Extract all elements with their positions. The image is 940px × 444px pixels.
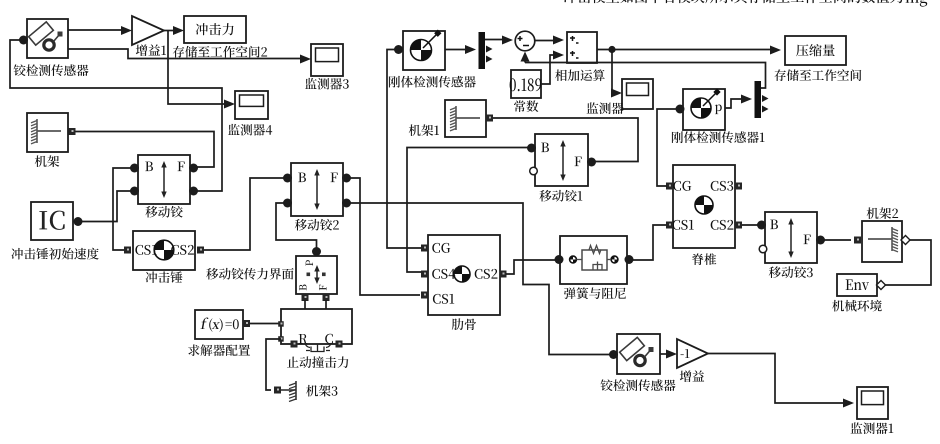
- port dots 移动铰2: [283, 174, 351, 208]
- ground block 机架2: [862, 221, 902, 262]
- port dots 移动铰1: [527, 144, 596, 167]
- port square 机架2 input: [854, 237, 861, 244]
- clipped caption text at top edge: [564, 0, 928, 7]
- open port C 移动铰1: [530, 167, 538, 175]
- arrowhead into 增益: [666, 350, 677, 359]
- wire 冲击锤 CS2 to 移动铰2 B: [204, 178, 288, 250]
- wire 刚体检测传感器 to demux: [445, 49, 466, 51]
- wire 0.189 to 相加运算 in2: [541, 55, 554, 84]
- label 监测器3: [305, 78, 349, 90]
- ground block 机架1: [445, 100, 486, 137]
- port dot 界面 top: [312, 247, 321, 256]
- block 冲击锤初始速度 IC: [31, 202, 73, 240]
- network frame 止动撞击力: [281, 309, 352, 352]
- arrowhead into sum: [502, 36, 513, 45]
- demux bar: [479, 32, 486, 69]
- wire 脊椎 CG to 刚体检测传感器1: [657, 109, 676, 186]
- label 常数: [514, 100, 538, 112]
- subsystem block 相加运算: [567, 32, 597, 63]
- arrowhead into 相加运算 in2: [553, 51, 564, 60]
- wire mux1 to sum bottom: [524, 59, 526, 63]
- mux1 bar: [755, 81, 762, 118]
- label 监测器1: [851, 422, 894, 434]
- port dots 弹簧与阻尼: [555, 255, 634, 264]
- arrowhead into 监测器3: [300, 55, 311, 64]
- arrowhead into 冲击力: [173, 26, 184, 35]
- wire IC to 移动铰 actuator port: [82, 191, 136, 222]
- wire 移动铰2 actuator to 界面 P: [276, 203, 317, 248]
- port squares 止动撞击力 left edge: [278, 321, 284, 342]
- port squares 界面 bottom: [302, 294, 330, 301]
- port dot IC output: [74, 217, 83, 226]
- label 相加运算: [555, 69, 605, 81]
- wire 肋骨 CS4 to 移动铰1 B: [407, 148, 531, 273]
- arrowhead into demux: [465, 45, 476, 54]
- arrowhead into mux1: [741, 95, 752, 104]
- scope block 监测器3: [311, 44, 343, 76]
- port square f(x)=0 output: [243, 320, 250, 327]
- wire 刚体检测传感器1 to mux1: [725, 99, 742, 108]
- wire JS-bottom to gain: [660, 353, 667, 355]
- port dots 移动铰3: [757, 221, 825, 245]
- label 增益1: [136, 44, 166, 56]
- wire 界面 B down: [304, 300, 306, 309]
- label 铰检测传感器: [14, 64, 89, 76]
- wire 机架2 to Env: [885, 240, 931, 285]
- junction dot: [608, 46, 615, 53]
- label 机架2: [867, 207, 898, 219]
- body block 肋骨: [428, 235, 500, 315]
- wire mux1 out up-left to sum bottom: [525, 63, 766, 89]
- wire 移动铰2 sensor to JS-bottom: [345, 203, 610, 355]
- arrowhead into sum bottom: [521, 52, 530, 62]
- scope block 监测器: [622, 79, 653, 109]
- arrowhead into 相加运算 in1: [553, 36, 564, 45]
- label 肋骨: [452, 318, 476, 330]
- block joint sensor JS-bottom 铰检测传感器: [617, 334, 660, 374]
- wire 界面 F down: [325, 300, 327, 309]
- scope block 监测器1: [857, 387, 888, 419]
- label 刚体检测传感器1: [672, 131, 765, 143]
- label 刚体检测传感器: [389, 76, 476, 88]
- block To-Workspace 压缩量: [785, 36, 846, 65]
- wire JS-top out1 to gain1: [68, 29, 127, 31]
- wire demux out1 to sum: [485, 39, 503, 41]
- wire 机架 to 移动铰 F: [76, 132, 215, 168]
- arrowhead into 压缩量: [770, 46, 781, 55]
- block joint sensor JS-top 铰检测传感器: [27, 19, 68, 58]
- wire gain1 branch down to scope4: [168, 31, 226, 105]
- sum block 相加: [515, 31, 535, 51]
- label 求解器配置: [188, 344, 250, 356]
- wire spring to 脊椎 CS1: [631, 225, 666, 260]
- label 监测器4: [228, 124, 272, 136]
- label 机械环境: [832, 300, 882, 312]
- wire f(x)=0 to stop-force network: [250, 323, 281, 325]
- diamond port Env: [877, 281, 886, 290]
- port dot JS-bottom input: [609, 350, 618, 359]
- wire 增益 to 监测器1: [708, 354, 844, 404]
- arrowhead into gain1: [121, 26, 132, 35]
- demux stubs: [486, 46, 493, 63]
- wire to 机架3: [266, 339, 281, 390]
- label 存储至工作空间: [774, 69, 861, 81]
- wire 移动铰3 F to 机架2: [823, 239, 851, 241]
- port dots 移动铰: [130, 164, 198, 196]
- joint block 移动铰1: [535, 134, 588, 186]
- wire 移动铰2 F to 肋骨 CS1: [345, 178, 420, 295]
- port squares 冲击锤: [124, 247, 204, 254]
- label 冲击锤初始速度: [11, 248, 98, 260]
- label 移动铰: [145, 206, 182, 218]
- gain block 增益1: [132, 16, 164, 45]
- wire 脊椎 CS2 to 移动铰3 B: [742, 224, 761, 226]
- wire branch to 监测器: [612, 50, 613, 94]
- scope block 监测器4: [235, 91, 268, 119]
- arrowhead into 监测器1: [843, 399, 854, 408]
- wire sum to 相加运算 in1: [535, 40, 554, 42]
- label 机架1: [409, 124, 439, 136]
- wire gain1 to toworkspace: [164, 30, 175, 32]
- port dot 刚体检测传感器 input: [394, 45, 403, 54]
- gain block 增益 -1: [677, 339, 708, 368]
- ground icon 机架3: [281, 381, 296, 402]
- arrowhead into 监测器: [611, 89, 622, 98]
- port square 机架 output: [69, 128, 76, 135]
- joint block 移动铰2: [291, 163, 343, 216]
- label 止动撞击力: [287, 356, 348, 368]
- constant block 0.189: [510, 70, 542, 98]
- joint block 移动铰: [138, 155, 190, 204]
- body block 冲击锤: [133, 231, 195, 270]
- label 弹簧与阻尼: [564, 287, 626, 299]
- port squares 脊椎: [666, 183, 742, 229]
- port squares 止动撞击力 R C: [291, 341, 343, 348]
- block 求解器配置 f(x)=0: [195, 310, 243, 339]
- label 机架3: [306, 385, 337, 397]
- port squares 肋骨: [421, 245, 507, 299]
- label 存储至工作空间2: [173, 46, 267, 58]
- wire 肋骨 CS2 to spring: [506, 260, 555, 274]
- label 铰检测传感器 bottom: [601, 379, 676, 391]
- diamond port 机架2: [901, 236, 910, 245]
- port square 机架1 output: [486, 115, 493, 122]
- body sensor block 刚体检测传感器: [403, 30, 445, 70]
- wire 机架1 to 移动铰1 F: [493, 118, 638, 162]
- wire 冲击锤 CS1 to 移动铰 B: [113, 168, 136, 250]
- label 移动铰传力界面: [206, 268, 294, 280]
- block To-Workspace 冲击力: [184, 16, 246, 43]
- wire JS-top out2 to scope3: [68, 49, 302, 59]
- body block 脊椎: [672, 165, 735, 248]
- port dot 刚体检测传感器1 input: [676, 105, 685, 114]
- label 监测器: [587, 102, 624, 114]
- label 移动铰3: [769, 266, 813, 278]
- port dot JS-top input: [19, 36, 28, 45]
- joint block 移动铰3: [765, 212, 817, 263]
- block 弹簧与阻尼: [560, 236, 627, 284]
- ground block 机架: [27, 113, 68, 152]
- body sensor block 刚体检测传感器1: [683, 88, 725, 130]
- wire 相加运算 out to 压缩量: [597, 49, 771, 51]
- open port C 移动铰3: [759, 245, 767, 253]
- mux1 stubs: [762, 95, 769, 113]
- wire 肋骨 CG to 刚体检测传感器: [387, 50, 421, 249]
- label 脊椎: [692, 253, 716, 265]
- label 移动铰1: [539, 190, 582, 202]
- label 增益: [680, 370, 704, 382]
- arrowhead into 监测器4: [224, 100, 235, 109]
- label 冲击锤: [146, 271, 183, 283]
- wire 移动铰 sensor-out to JS-top input: [10, 40, 222, 191]
- block 移动铰传力界面: [296, 256, 337, 294]
- port square 机架3: [274, 387, 281, 394]
- label 移动铰2: [295, 219, 339, 231]
- label 机架: [35, 155, 59, 167]
- block Env 机械环境: [837, 274, 877, 296]
